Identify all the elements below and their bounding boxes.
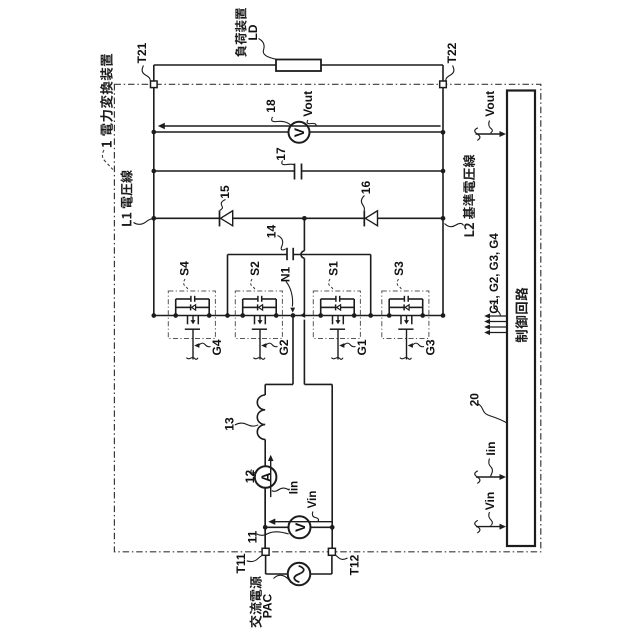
svg-text:T22: T22 — [445, 42, 459, 63]
svg-text:N1: N1 — [279, 267, 293, 283]
svg-text:17: 17 — [274, 147, 288, 161]
svg-text:V: V — [292, 522, 308, 532]
svg-text:G3: G3 — [424, 339, 438, 355]
svg-text:Vout: Vout — [483, 91, 497, 117]
svg-text:Iin: Iin — [289, 481, 301, 494]
svg-text:A: A — [258, 472, 274, 482]
svg-text:13: 13 — [223, 417, 237, 431]
svg-text:G4: G4 — [210, 339, 224, 355]
svg-text:14: 14 — [265, 225, 279, 239]
svg-text:G1: G1 — [355, 339, 369, 355]
svg-text:T11: T11 — [234, 553, 248, 573]
svg-text:16: 16 — [359, 181, 373, 195]
svg-text:T21: T21 — [135, 42, 149, 63]
svg-text:S1: S1 — [327, 261, 341, 276]
svg-text:S4: S4 — [178, 261, 192, 276]
svg-text:T12: T12 — [348, 554, 362, 575]
svg-text:11: 11 — [246, 530, 260, 543]
svg-text:S2: S2 — [248, 261, 262, 276]
svg-text:G2: G2 — [277, 339, 291, 355]
svg-text:S3: S3 — [392, 261, 406, 276]
svg-text:18: 18 — [264, 99, 278, 113]
svg-text:LD: LD — [246, 24, 260, 40]
svg-text:Vout: Vout — [301, 91, 315, 117]
svg-text:V: V — [291, 127, 307, 137]
svg-text:Iin: Iin — [484, 442, 498, 456]
svg-text:Vin: Vin — [483, 492, 497, 510]
svg-text:15: 15 — [218, 185, 232, 199]
svg-text:PAC: PAC — [261, 593, 275, 618]
svg-text:12: 12 — [243, 470, 257, 484]
svg-text:Vin: Vin — [307, 491, 319, 509]
